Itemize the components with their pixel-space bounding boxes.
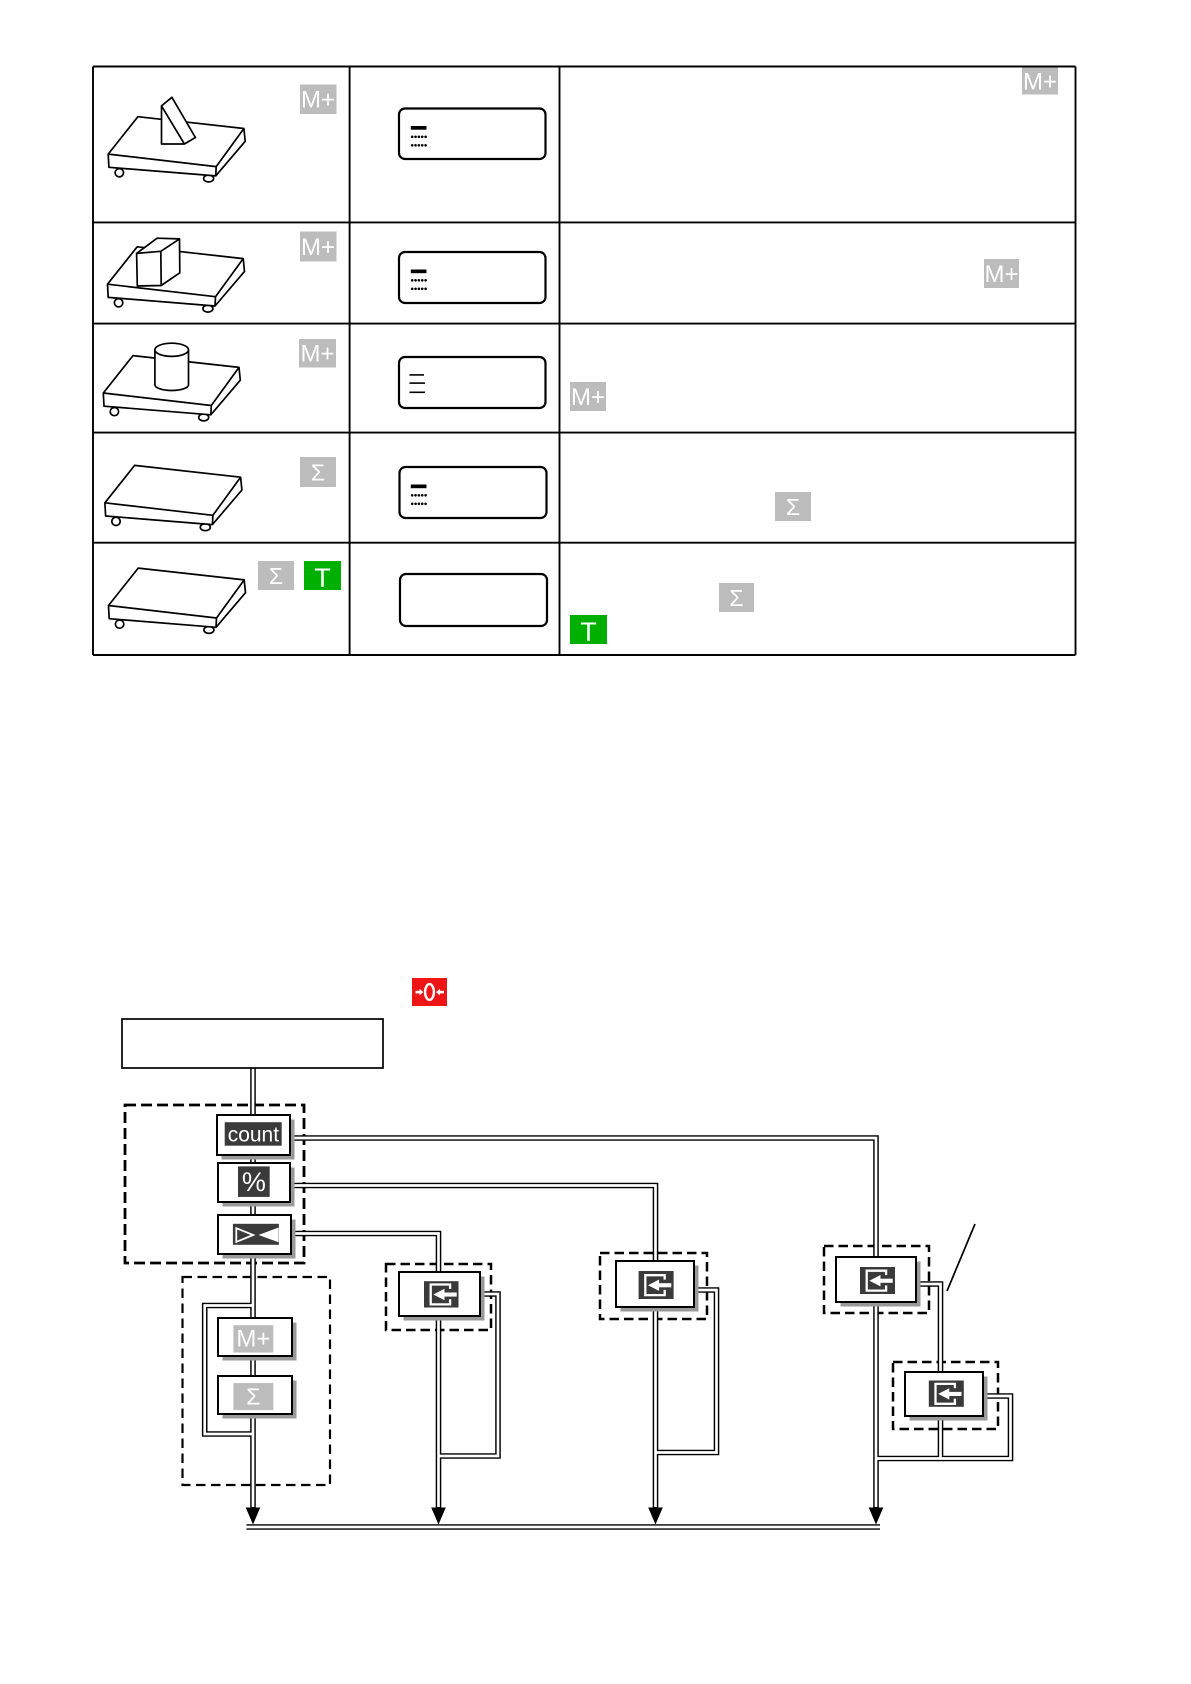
row 5 col 1: key label sigma [258,561,294,590]
wire: count to % [250,1154,256,1165]
row 4: display dash [411,485,427,489]
row 2: cube object on platform [137,238,180,286]
dashed group box: totalize keys (M+ / sigma) [183,1277,331,1485]
arrowhead: branch 3 [648,1508,663,1525]
row 3: display box [399,357,546,408]
wire: branch 1 out to branch 1b [915,1284,941,1459]
key: enter branch 2 [399,1272,485,1321]
wire: branch 2 down [436,1315,442,1510]
key: sigma [218,1376,297,1419]
row 4: display dot rows [411,494,427,505]
wires: white inner pass [205,1068,1011,1527]
wire: branch 3 down [653,1306,659,1510]
row 1: wedge object on platform [162,97,196,144]
row 3 col 1: key label M+ [299,339,336,368]
key: count [217,1115,295,1160]
row 5: display box (blank) [400,574,547,626]
wires (double line): black pass [205,1068,1011,1527]
row 4: display box [400,467,547,518]
row 4 col 1: key label sigma [300,457,336,487]
svg-text:M+: M+ [301,87,335,114]
wire: animal key to M+ [250,1253,256,1319]
row 5: scale platform (empty) [109,568,246,633]
svg-text:M+: M+ [1023,69,1057,96]
row 1: display dash [411,126,427,130]
wire: branch 2 repeat loop [439,1294,499,1456]
svg-text:M+: M+ [984,261,1018,288]
row 3: cylinder object on platform [155,343,189,390]
dashed box: enter key branch 2 [386,1264,491,1330]
svg-text:M+: M+ [571,384,605,411]
wire: branch 1b repeat loop [876,1396,1011,1459]
wire: sigma down to arrow [250,1413,256,1510]
arrowhead: branch 1 [869,1508,884,1525]
row 1: display box [399,109,546,160]
row 3: scale platform [103,356,240,421]
key: enter branch 3 [616,1261,699,1312]
dashed box: enter key branch 3 [600,1253,707,1319]
key: M+ [218,1318,297,1361]
row 1: display dot rows [411,136,427,147]
svg-text:Σ: Σ [246,1384,260,1410]
row 2: display dot rows [411,279,427,290]
svg-text:count: count [228,1124,280,1147]
svg-text:Σ: Σ [729,585,743,611]
table grid [93,67,1076,656]
svg-text:Σ: Σ [269,563,283,589]
wire: animal key out to branch 2 [290,1234,439,1274]
row 3: display line rows [410,374,426,393]
row 2 col 3: key label M+ [984,259,1019,288]
wire: start box to count key [250,1068,256,1116]
svg-text:T: T [314,563,331,593]
svg-text:%: % [242,1167,266,1197]
row 2: display dash [411,270,427,274]
row 2: display box [399,252,546,303]
row 4 col 3: key label sigma [775,492,811,521]
svg-text:Σ: Σ [311,460,325,486]
arrowhead: branch 2 [431,1508,446,1525]
dashed box: enter key branch 1b [893,1362,998,1429]
row 2 col 1: key label M+ [300,232,337,262]
row 5 col 3: key label sigma [719,583,754,612]
start box (empty rectangle) [122,1019,383,1068]
arrowhead: M+/sigma branch [246,1508,261,1525]
zero indicator label (red) [412,978,447,1006]
key: animal weighing (bowtie icon) [218,1215,296,1259]
row 5 col 1: key label T (green) [304,561,341,593]
wire: branch 1 down [873,1301,879,1510]
row 5 col 3: key label T (green) [570,615,607,647]
row 2: scale platform [108,247,245,312]
key: enter branch 1b [905,1372,988,1421]
wire: bottom collector line [247,1524,881,1530]
row 1 col 3: key label M+ (top right) [1022,68,1058,96]
dashed group box: weighing mode keys (count / % / animal) [125,1105,304,1263]
row 1 col 1: key label M+ [300,85,337,115]
svg-text:M+: M+ [301,234,335,261]
svg-text:T: T [580,617,597,647]
wire: count out to branch 1 [289,1138,876,1258]
row 3 col 3: key label M+ [570,382,606,411]
annotation pointer line [947,1224,975,1291]
wire: branch 3 repeat loop [656,1290,717,1453]
svg-text:Σ: Σ [786,494,800,520]
wire: % to animal key [250,1201,256,1217]
wire: M+ to sigma [250,1355,256,1377]
svg-text:M+: M+ [236,1326,270,1353]
wire: % out to branch 3 [289,1186,656,1263]
row 4: scale platform (empty) [105,465,242,530]
row 1: scale platform [108,117,245,182]
svg-text:M+: M+ [300,341,334,368]
wire: M+/sigma repeat loop [205,1306,253,1435]
key: enter branch 1 [836,1257,921,1307]
key: % [218,1163,295,1207]
dashed box: enter key branch 1 [824,1246,929,1313]
